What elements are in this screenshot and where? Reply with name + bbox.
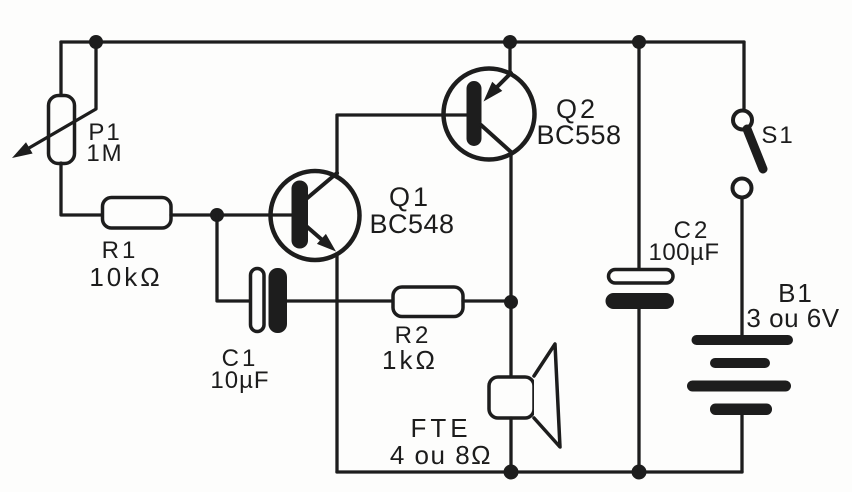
wire Q2 collector down to R2 node bbox=[509, 154, 512, 303]
wire C1 to R2 bbox=[287, 299, 393, 302]
P1 wiper wire from top node bbox=[29, 42, 96, 148]
svg-text:3 ou 6V: 3 ou 6V bbox=[746, 303, 839, 333]
node junction R2/Q2/FTE bbox=[504, 295, 518, 309]
wire Q1 emitter down to bottom rail bbox=[335, 254, 338, 472]
switch S1 bbox=[733, 111, 764, 198]
resistor R1 bbox=[103, 198, 172, 229]
potentiometer P1 bbox=[49, 96, 75, 164]
wire Q1 collector up to Q2 base bbox=[337, 115, 467, 176]
node junction bottom C2 bbox=[632, 465, 647, 480]
resistor R2 bbox=[393, 287, 463, 317]
svg-text:100µF: 100µF bbox=[648, 239, 719, 266]
wire bottom ground rail bbox=[337, 470, 742, 473]
svg-text:FTE: FTE bbox=[410, 413, 471, 443]
capacitor C1 bbox=[251, 268, 288, 333]
wire top rail to C2 bbox=[637, 42, 640, 270]
wire S1 to battery bbox=[740, 198, 743, 335]
capacitor C2 bbox=[606, 270, 675, 310]
transistor Q1 bbox=[271, 171, 360, 260]
wire battery to bottom rail bbox=[740, 415, 743, 472]
wire speaker to bottom rail bbox=[509, 418, 512, 472]
P1 wiper arrowhead bbox=[12, 142, 33, 158]
wire left drop to P1 top bbox=[59, 42, 62, 96]
node junction top left P1 bbox=[89, 35, 103, 49]
transistor Q2 bbox=[444, 69, 535, 160]
node junction bottom speaker bbox=[504, 465, 519, 480]
svg-text:R1: R1 bbox=[102, 237, 139, 264]
speaker FTE bbox=[489, 344, 560, 447]
wire top rail right drop to S1 bbox=[742, 42, 745, 110]
svg-text:BC558: BC558 bbox=[536, 120, 621, 150]
svg-text:Q1: Q1 bbox=[389, 182, 431, 212]
node junction R1/Q1/C1 bbox=[210, 208, 224, 222]
svg-text:1M: 1M bbox=[86, 140, 123, 167]
svg-text:4 ou 8Ω: 4 ou 8Ω bbox=[390, 440, 492, 470]
wire R2 to node bbox=[463, 299, 511, 302]
battery B1 bbox=[687, 335, 793, 415]
wire P1 bottom to R1 bbox=[61, 163, 103, 215]
wire node down to speaker bbox=[509, 302, 512, 378]
svg-text:10µF: 10µF bbox=[210, 367, 269, 394]
node junction top Q2 bbox=[503, 35, 517, 49]
svg-text:10k​Ω: 10k​Ω bbox=[89, 262, 162, 292]
wire R1 to Q1 base bbox=[171, 213, 292, 216]
wire top supply rail bbox=[61, 40, 744, 43]
svg-text:S1: S1 bbox=[761, 122, 794, 149]
node junction top C2 bbox=[632, 35, 646, 49]
wire Q2 emitter to top rail bbox=[508, 42, 511, 74]
wire C2 down to bottom rail bbox=[637, 309, 640, 472]
svg-text:1k​Ω: 1k​Ω bbox=[382, 345, 438, 375]
wire junction down to C1 bbox=[217, 215, 250, 301]
svg-text:BC548: BC548 bbox=[369, 209, 454, 239]
